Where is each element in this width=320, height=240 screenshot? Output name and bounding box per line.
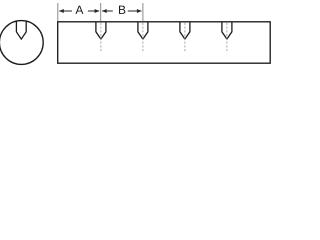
drill hole 3 outline (180, 22, 190, 39)
bar side view outline (58, 22, 271, 63)
drill hole 3 centerline (184, 23, 186, 52)
extension line / tick at hole 1 (100, 3, 102, 21)
drill hole 4 centerline (226, 23, 228, 52)
label A (75, 6, 83, 14)
drill hole 2 centerline (142, 23, 144, 52)
background (0, 0, 271, 68)
drill hole 1 outline (96, 22, 106, 39)
drill hole 2 outline (138, 22, 148, 39)
circle center-drill notch (16, 21, 26, 39)
dimension B left arrow (102, 9, 113, 13)
dimension A right arrow (88, 9, 100, 13)
drill hole 1 centerline (100, 23, 102, 52)
end-view circle (round bar end) (0, 21, 43, 65)
extension line / tick at bar left edge (57, 3, 59, 21)
label B (119, 6, 125, 14)
extension line / tick at hole 2 (142, 3, 144, 21)
dimension A left arrow (59, 9, 72, 13)
drill hole 4 outline (222, 22, 232, 39)
dimension B right arrow (128, 9, 142, 13)
